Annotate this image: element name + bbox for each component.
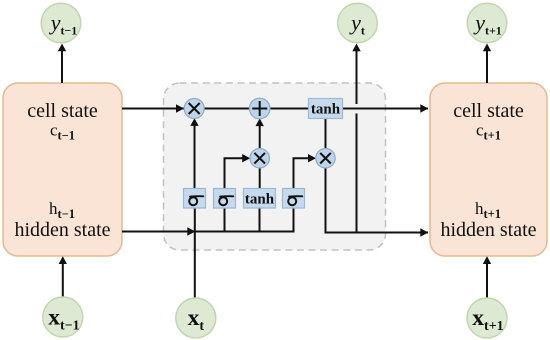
wire: h/x line up into sigma2 bottom [224,207,226,232]
dashed LSTM cell boundary box [164,83,386,250]
wire: cell state line c (left box to right box) with arrowheads [122,104,428,112]
wire: tanh (top) down to multiply gate 2 [325,119,327,150]
wire: sigma3 elbow to multiply gate 2 (arrow right) [294,154,317,189]
node: output y_t+1 circle [467,3,507,43]
wire: x_t+1 circle up to right box bottom (arrow up) [483,256,491,297]
wire: x_t input up to sigma1 [194,207,196,298]
wire: left box top to y_t-1 circle (arrow up) [58,44,66,84]
gate: sigma box 1 (forget gate) [184,189,206,209]
gate: multiply circle 1 (forget) on cell line [184,99,204,119]
svg-text:hidden state: hidden state [440,219,536,241]
block: previous state (left orange box) [3,83,122,256]
wire: h/x line up into tanh (bottom) box bottom [259,207,261,232]
gate: sigma box 2 (input gate) [214,189,236,209]
svg-text:cell state: cell state [27,100,98,122]
gate: multiply circle 2 (output) [316,149,335,168]
gate: add circle on cell line [249,98,270,119]
node: output y_t circle [338,3,378,43]
gate: tanh box (top, on cell line) [309,99,343,119]
gate: sigma box 3 (output gate) [283,189,305,209]
svg-text:tanh: tanh [311,102,341,118]
wire: multiply gate mid to add gate (arrow up) [256,118,264,149]
gate: tanh box (bottom, candidate) [244,189,276,209]
svg-text:cell state: cell state [453,100,524,122]
wire: tanh (bottom) to multiply gate mid [259,168,261,189]
wire: sigma1 to multiply gate 1 (arrow up) [190,118,198,189]
block: next state (right orange box) [430,83,547,256]
node: output y_t-1 circle [41,3,81,43]
svg-text:hidden state: hidden state [14,219,110,241]
wire: right box top to y_t+1 circle (arrow up) [483,44,491,84]
wire: junction up to output y_t (arrow up into circle) [352,44,360,233]
svg-text:tanh: tanh [245,192,275,208]
wire: hidden state line h from left box, junction arrow, up to sigma3 [122,207,294,236]
wire: x_t-1 circle up to left box bottom (arrow up) [59,256,67,297]
wire: multiply gate 2 down and right to next hidden state (arrow into right box) [326,168,429,237]
node: input x_t-1 circle [43,297,83,337]
node: input x_t circle [176,298,216,338]
wire: sigma2 elbow to multiply gate mid (arrow right) [225,154,251,189]
node: input x_t+1 circle [467,298,507,338]
gate: multiply circle mid (input) [250,149,269,168]
